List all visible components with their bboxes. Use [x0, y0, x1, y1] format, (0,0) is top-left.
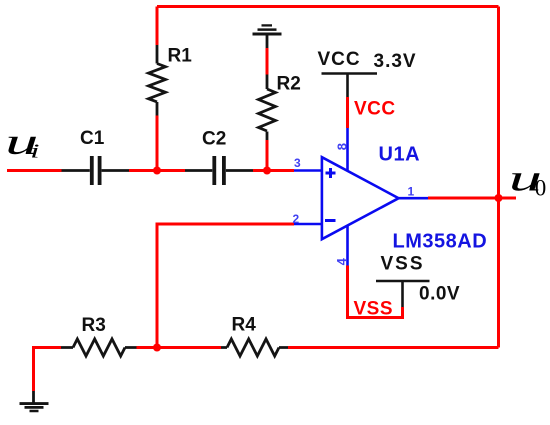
wire input ui [7, 169, 62, 172]
svg-text:8: 8 [335, 143, 350, 150]
svg-text:VSS: VSS [354, 299, 394, 320]
pin 8 wire (V+) [346, 128, 349, 170]
wire R1 top (from top rail) [156, 7, 159, 46]
svg-text:1: 1 [408, 185, 415, 199]
wire VCC red segment [346, 97, 349, 128]
capacitor C2 [185, 156, 253, 185]
svg-text:C2: C2 [202, 129, 226, 150]
wire right rail [497, 7, 500, 348]
wire R1 bottom [156, 116, 159, 171]
wire R2 bottom [266, 140, 269, 171]
svg-text:LM358AD: LM358AD [393, 231, 488, 253]
wire top rail [157, 5, 499, 8]
svg-text:VCC: VCC [354, 99, 396, 120]
svg-text:U1A: U1A [379, 144, 421, 166]
wire bottom rail mid segment [157, 346, 221, 349]
pin 4 wire (V-) [346, 225, 349, 266]
svg-text:VCC: VCC [318, 49, 361, 70]
pin 2 wire (inverting input) [294, 223, 322, 226]
wire C2 to R2 junction [253, 169, 294, 172]
op-amp U1A triangle [322, 157, 399, 239]
wire ground to R2 [266, 48, 269, 75]
op-amp plus sign [326, 168, 336, 178]
svg-text:3: 3 [294, 156, 301, 170]
svg-text:R2: R2 [277, 74, 301, 95]
wire bottom rail right segment [288, 346, 499, 349]
node feedback junction [153, 344, 161, 352]
power VSS symbol [376, 281, 430, 307]
op-amp minus sign [325, 219, 336, 222]
node output junction [495, 194, 503, 202]
svg-text:R1: R1 [168, 46, 193, 67]
svg-text:0: 0 [535, 176, 547, 201]
svg-text:3.3V: 3.3V [374, 51, 417, 72]
svg-text:C1: C1 [80, 128, 105, 149]
wire bottom-left corner to ground [34, 348, 62, 392]
resistor R1 [149, 45, 166, 116]
wire feedback vertical from junction to inverting input [157, 224, 294, 348]
svg-text:4: 4 [334, 257, 349, 265]
resistor R3 [61, 339, 137, 356]
pin 1 wire (output) [399, 197, 428, 200]
svg-text:2: 2 [293, 212, 300, 226]
wire VSS red path [348, 266, 403, 318]
svg-text:0.0V: 0.0V [419, 284, 460, 305]
power VCC symbol [322, 74, 378, 98]
wire output to right rail [428, 197, 499, 200]
svg-text:R4: R4 [232, 315, 257, 336]
wire bottom rail left of junction [137, 346, 158, 349]
resistor R2 [259, 75, 276, 141]
node R2 junction [263, 167, 271, 175]
node R1 junction [153, 167, 161, 175]
capacitor C1 [62, 156, 130, 185]
pin 3 wire (non-inverting input) [294, 169, 322, 172]
svg-text:i: i [30, 140, 39, 162]
ground bottom-left [20, 391, 49, 411]
wire C1 to junction [129, 169, 185, 172]
ground top (above R2) [253, 25, 282, 48]
wire output stub [499, 197, 517, 200]
svg-text:VSS: VSS [381, 254, 425, 275]
resistor R4 [221, 339, 288, 356]
svg-text:R3: R3 [82, 315, 106, 336]
